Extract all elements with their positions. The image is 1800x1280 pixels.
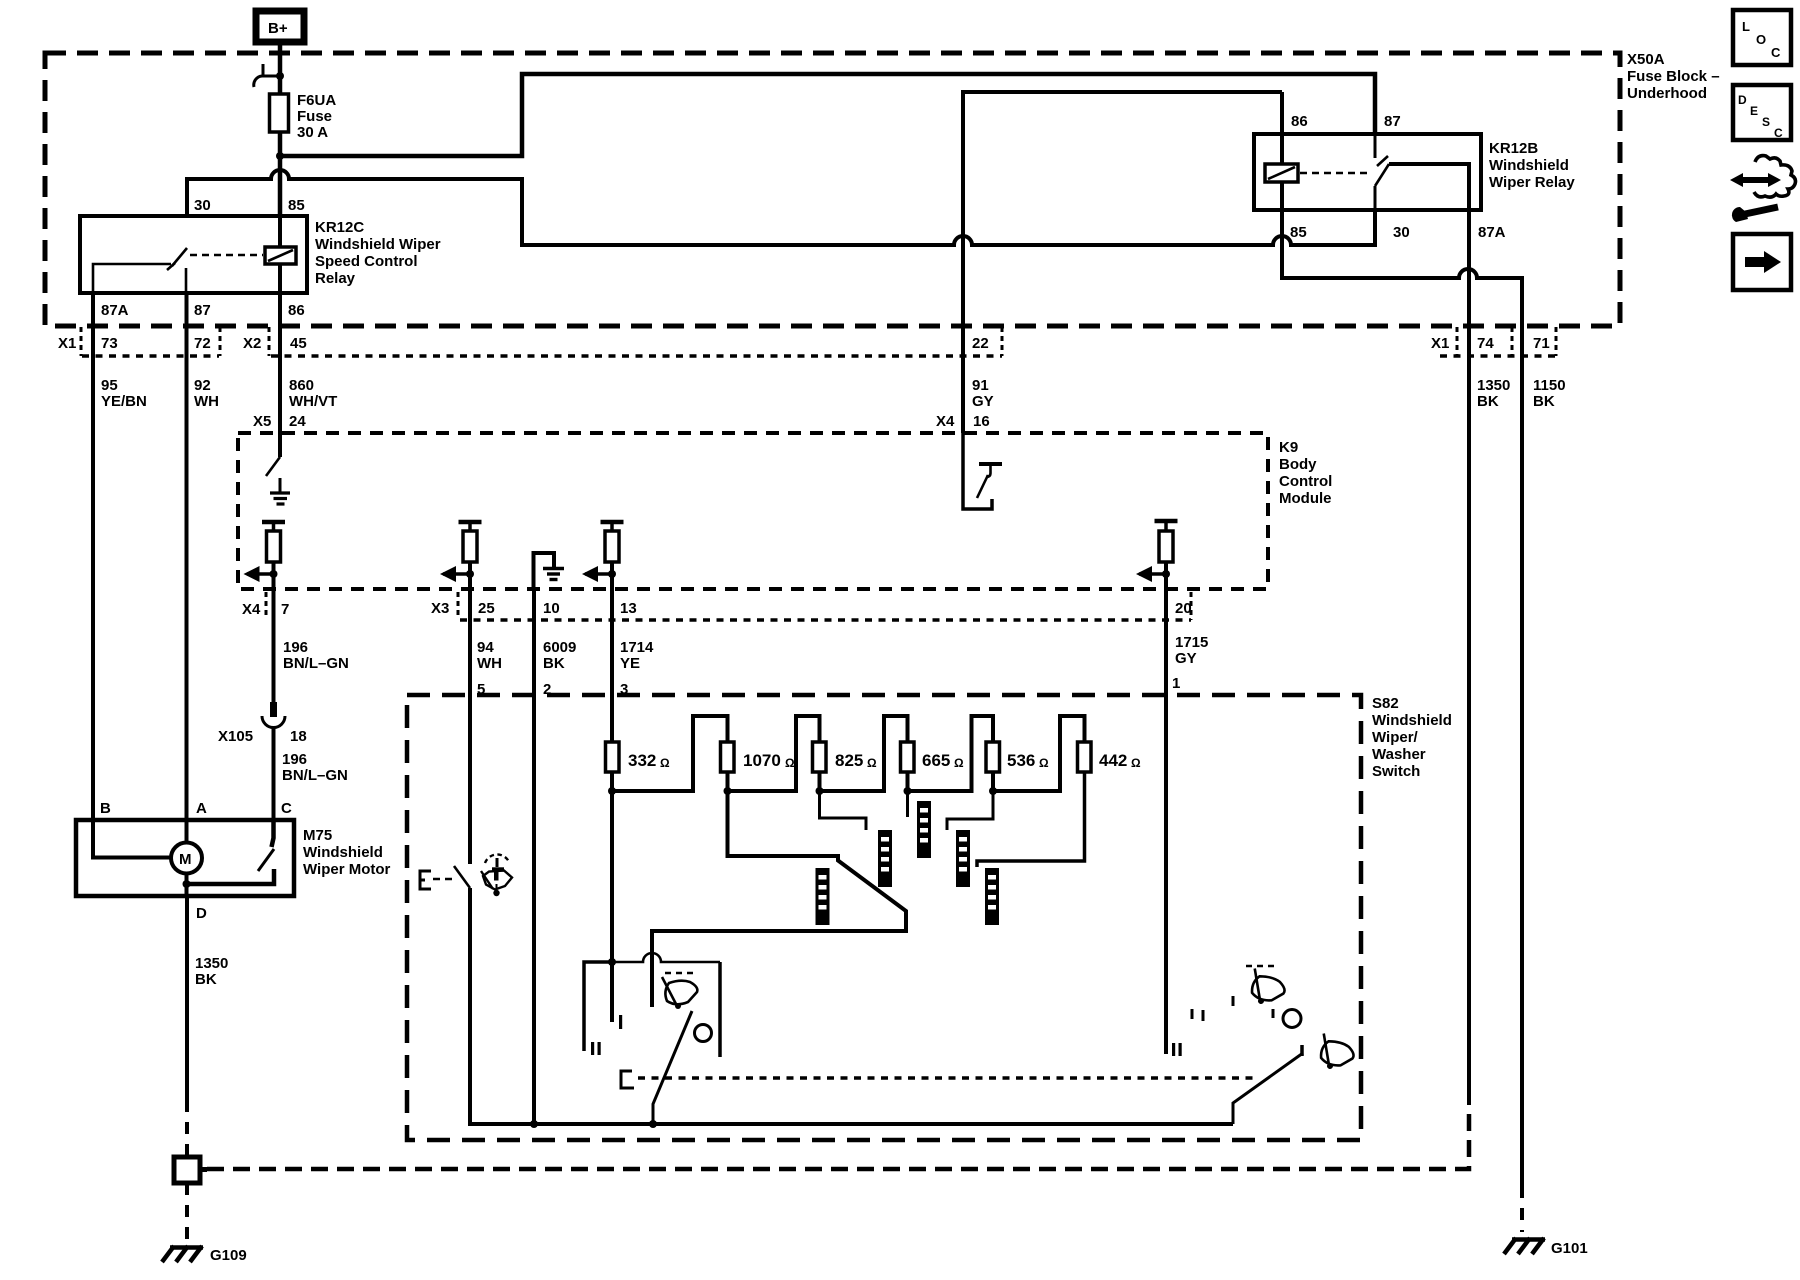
circuit label 91 GY <box>972 377 994 410</box>
svg-text:BK: BK <box>1533 393 1555 410</box>
KR12B coil-arm dashed link <box>1300 172 1368 175</box>
svg-text:M: M <box>179 851 192 868</box>
svg-text:20: 20 <box>1175 600 1192 617</box>
svg-text:86: 86 <box>288 302 305 319</box>
node motor bottom junction <box>183 874 191 897</box>
S82 Windshield Wiper/Washer Switch dashed box <box>407 695 1452 1140</box>
left rotary switch arm to bottom bus <box>653 1011 692 1124</box>
svg-text:1150: 1150 <box>1533 377 1566 394</box>
svg-text:1350: 1350 <box>195 955 228 972</box>
BCM internal ground for 6009 BK <box>534 553 565 589</box>
right rotary switch arm from bottom bus <box>1233 1053 1303 1124</box>
wire KR12B pin85 to X1-71 (1150 BK) <box>1282 182 1522 1186</box>
label contact II <box>591 1042 594 1055</box>
off-page bracket (washer switch) <box>420 871 431 889</box>
corner icon diagnostic hand/wrench <box>1730 156 1796 222</box>
wire fuse junction to top bus <box>280 74 1375 156</box>
motor park switch wire <box>187 869 275 884</box>
motor M75 Windshield Wiper Motor <box>76 820 391 896</box>
wire crossing hop over wiper feed <box>612 953 720 962</box>
BCM output driver pin X4-7 (supply bar, resistor, arrow) <box>244 522 286 589</box>
svg-text:Windshield Wiper: Windshield Wiper <box>315 236 441 253</box>
svg-text:BK: BK <box>543 655 565 672</box>
svg-text:13: 13 <box>620 600 637 617</box>
svg-text:B: B <box>100 800 111 817</box>
corner icon LOC <box>1733 10 1791 65</box>
circuit label 1714 YE <box>620 639 654 672</box>
wire bridge R536 to R442 <box>993 716 1085 791</box>
svg-text:332: 332 <box>628 751 656 770</box>
wire tap stub from R665 junction <box>906 791 909 817</box>
svg-text:24: 24 <box>289 413 306 430</box>
dashed link to washer arm <box>433 878 452 881</box>
svg-text:Ω: Ω <box>1131 756 1141 770</box>
contact strip 4 <box>956 830 970 887</box>
svg-text:BK: BK <box>195 971 217 988</box>
svg-text:X4: X4 <box>936 413 955 430</box>
corner icon DESC <box>1733 85 1791 140</box>
splice block on 1350 BK <box>174 1157 207 1183</box>
svg-text:Relay: Relay <box>315 270 356 287</box>
svg-text:45: 45 <box>290 335 307 352</box>
right rotary contact ticks <box>1192 996 1273 1021</box>
dashed wire splice to 1350 BK main run <box>207 1105 1469 1169</box>
svg-text:BK: BK <box>1477 393 1499 410</box>
svg-text:O: O <box>1756 32 1766 47</box>
circuit label 196 BN/L-GN (lower) <box>282 751 348 784</box>
BCM output driver pin X3-20 <box>1136 521 1178 589</box>
svg-text:74: 74 <box>1477 335 1494 352</box>
circuit label 1350 BK (motor) <box>195 955 228 988</box>
svg-text:Fuse Block –: Fuse Block – <box>1627 68 1720 85</box>
svg-text:30 A: 30 A <box>297 124 328 141</box>
KR12C coil-arm dashed link <box>190 254 263 257</box>
washer pump circle (right) <box>1283 1010 1301 1028</box>
connector X5 pin 24 labels <box>253 413 306 430</box>
svg-text:71: 71 <box>1533 335 1550 352</box>
right rotary arm contact tick <box>1300 1045 1304 1056</box>
svg-text:1350: 1350 <box>1477 377 1510 394</box>
KR12C coil (85-86) <box>265 247 296 264</box>
wire tap from R825 junction to contact strip <box>820 791 867 830</box>
circuit label 6009 BK <box>543 639 576 672</box>
KR12B coil (86-85) <box>1265 164 1298 182</box>
svg-text:Windshield: Windshield <box>303 844 383 861</box>
svg-text:Speed Control: Speed Control <box>315 253 418 270</box>
svg-text:91: 91 <box>972 377 989 394</box>
wire KR12B pin87A to X1-74 (1350 BK) <box>1467 210 1471 1105</box>
wire from R1070 junction zigzag to rotary wiper feed <box>652 791 906 1007</box>
fuse F6UA 30A <box>270 92 337 141</box>
circuit label 95 YE/BN <box>101 377 147 410</box>
wire KR12C 85-86 through coil <box>278 216 282 247</box>
wire motor B internal <box>93 820 171 858</box>
contact strip 2 <box>878 830 892 887</box>
svg-text:18: 18 <box>290 728 307 745</box>
svg-text:YE/BN: YE/BN <box>101 393 147 410</box>
wire R825 bottom junction <box>816 772 824 795</box>
KR12B internal 87A contact bar <box>1389 164 1469 210</box>
node 6009 BK taps bottom bus <box>530 1120 538 1128</box>
svg-text:Body: Body <box>1279 456 1317 473</box>
svg-text:72: 72 <box>194 335 211 352</box>
svg-text:WH: WH <box>194 393 219 410</box>
motor armature symbol <box>171 843 202 874</box>
wire KR12B pin86 internal to coil <box>1280 92 1284 164</box>
svg-text:G101: G101 <box>1551 1240 1588 1257</box>
svg-text:X105: X105 <box>218 728 253 745</box>
svg-text:BN/L–GN: BN/L–GN <box>283 655 349 672</box>
svg-text:536: 536 <box>1007 751 1035 770</box>
wire to contact II <box>584 962 612 1051</box>
svg-text:825: 825 <box>835 751 863 770</box>
svg-text:C: C <box>1771 45 1781 60</box>
ground G109 <box>162 1246 247 1264</box>
svg-text:K9: K9 <box>1279 439 1298 456</box>
svg-text:X1: X1 <box>58 335 76 352</box>
connector row X4/X3 under BCM <box>242 592 1192 620</box>
corner icon forward arrow <box>1733 234 1791 290</box>
svg-text:S82: S82 <box>1372 695 1399 712</box>
svg-text:Ω: Ω <box>785 756 795 770</box>
svg-text:1070: 1070 <box>743 751 781 770</box>
circuit label 196 BN/L-GN (upper) <box>283 639 349 672</box>
KR12B internal switch arm from pin 30 <box>1375 164 1389 210</box>
node rotary contact junction <box>608 958 616 966</box>
svg-text:B+: B+ <box>268 20 288 37</box>
svg-text:1714: 1714 <box>620 639 654 656</box>
circuit label 1350 BK <box>1477 377 1510 410</box>
BCM output driver pin X3-25 <box>440 522 482 589</box>
svg-text:Fuse: Fuse <box>297 108 332 125</box>
wire 94 WH to washer switch <box>468 589 472 864</box>
svg-text:Washer: Washer <box>1372 746 1426 763</box>
svg-text:C: C <box>281 800 292 817</box>
battery B+ terminal <box>256 11 304 42</box>
svg-text:X4: X4 <box>242 601 261 618</box>
svg-text:1: 1 <box>1172 675 1180 692</box>
BCM internal driver switch on 91 GY <box>963 433 1002 509</box>
resistor 536 ohm <box>986 742 1049 772</box>
svg-text:Wiper Relay: Wiper Relay <box>1489 174 1575 191</box>
svg-text:442: 442 <box>1099 751 1127 770</box>
svg-text:16: 16 <box>973 413 990 430</box>
wire motor C internal with kink <box>272 820 274 847</box>
svg-text:GY: GY <box>1175 650 1197 667</box>
svg-text:860: 860 <box>289 377 314 394</box>
svg-text:10: 10 <box>543 600 560 617</box>
svg-text:Ω: Ω <box>660 756 670 770</box>
circuit label 1715 GY <box>1175 634 1208 667</box>
X50A Fuse Block - Underhood dashed box <box>45 51 1720 326</box>
wire R332 bottom junction <box>608 772 616 795</box>
wire bridge R1070 to R825 <box>728 716 820 791</box>
connector row X1/X2 under fuse block (left) <box>58 327 1002 356</box>
wire bridge R665 to R536 <box>908 716 994 791</box>
washer pump circle (left) <box>695 1025 712 1042</box>
svg-text:KR12B: KR12B <box>1489 140 1538 157</box>
svg-text:F6UA: F6UA <box>297 92 336 109</box>
svg-text:WH/VT: WH/VT <box>289 393 337 410</box>
ground G101 <box>1504 1238 1588 1257</box>
resistor 332 ohm <box>606 742 671 772</box>
wire 1714 YE to rotary contacts I and II <box>610 791 614 1022</box>
contact strip 1 <box>816 868 830 925</box>
wire right contact of left rotary <box>718 962 722 1057</box>
wiper park icon lower (right rotary) <box>1314 1033 1358 1074</box>
svg-text:85: 85 <box>1290 224 1307 241</box>
wire 196 BN/L-GN lower segment to motor C <box>272 727 276 820</box>
dashed wire splice to ground G109 <box>185 1183 189 1244</box>
svg-text:Wiper/: Wiper/ <box>1372 729 1419 746</box>
washer spray icon <box>481 854 512 896</box>
relay KR12C Windshield Wiper Speed Control Relay <box>80 216 441 293</box>
KR12C internal 87A contact <box>93 264 171 293</box>
svg-text:X3: X3 <box>431 600 449 617</box>
wire tap from R536 junction to contact strip <box>947 791 993 830</box>
svg-text:M75: M75 <box>303 827 332 844</box>
svg-text:25: 25 <box>478 600 495 617</box>
svg-text:Ω: Ω <box>954 756 964 770</box>
svg-text:86: 86 <box>1291 113 1308 130</box>
wiper park icon upper (right rotary) <box>1245 966 1289 1010</box>
contact strip 5 <box>985 868 999 925</box>
resistor 442 ohm <box>1078 742 1142 772</box>
BCM internal switch to ground on 860 WH/VT <box>266 457 280 476</box>
KR12C internal 87 contact stub <box>185 268 188 293</box>
KR12C internal switch arm (30 to 87A) <box>167 248 187 270</box>
resistor 665 ohm <box>901 742 965 772</box>
wire 1150 BK dashed segment to ground <box>1520 1186 1524 1232</box>
svg-text:85: 85 <box>288 197 305 214</box>
wire 1715 GY into S82 <box>1164 589 1168 1054</box>
svg-text:196: 196 <box>283 639 308 656</box>
svg-text:22: 22 <box>972 335 989 352</box>
wire 95 YE/BN (KR12C 87A to motor B) <box>91 293 95 820</box>
label contact I <box>619 1015 622 1029</box>
svg-text:C: C <box>1774 126 1783 140</box>
svg-text:95: 95 <box>101 377 118 394</box>
wire R536 bottom junction <box>989 772 997 795</box>
washer switch arm on 94 WH <box>454 866 470 888</box>
svg-text:87: 87 <box>194 302 211 319</box>
svg-text:Wiper Motor: Wiper Motor <box>303 861 391 878</box>
svg-text:196: 196 <box>282 751 307 768</box>
svg-text:Switch: Switch <box>1372 763 1420 780</box>
connector X105 pin 18 <box>218 702 307 745</box>
in-line connector on B+ feed <box>254 64 284 87</box>
svg-text:D: D <box>196 905 207 922</box>
resistor 1070 ohm <box>721 742 796 772</box>
wire 1350 BK from motor D <box>185 896 189 1100</box>
wire 1714 YE into S82 <box>610 589 614 742</box>
K9 Body Control Module dashed box <box>238 433 1332 589</box>
svg-text:30: 30 <box>1393 224 1410 241</box>
wire bridge R825 to R665 <box>820 716 908 791</box>
ground symbol inside BCM (860 circuit) <box>270 478 290 504</box>
svg-text:X50A: X50A <box>1627 51 1665 68</box>
wire 196 BN/L-GN upper segment <box>272 589 276 702</box>
svg-text:A: A <box>196 800 207 817</box>
circuit label 94 WH <box>477 639 502 672</box>
wire 1350 BK dashed off-page segment <box>185 1100 189 1155</box>
wire R1070 bottom junction <box>724 772 732 795</box>
svg-text:BN/L–GN: BN/L–GN <box>282 767 348 784</box>
svg-text:Ω: Ω <box>1039 756 1049 770</box>
svg-text:665: 665 <box>922 751 950 770</box>
wire 92 WH (KR12C 87 to motor A) <box>185 293 189 843</box>
motor park switch arm <box>258 849 274 871</box>
svg-text:1715: 1715 <box>1175 634 1208 651</box>
svg-text:KR12C: KR12C <box>315 219 364 236</box>
resistor 825 ohm <box>813 742 878 772</box>
svg-text:X1: X1 <box>1431 335 1449 352</box>
svg-text:87: 87 <box>1384 113 1401 130</box>
node arm to bus <box>649 1120 657 1128</box>
relay KR12B Windshield Wiper Relay <box>1254 134 1575 210</box>
KR12B pin 87 internal stub with contact tick <box>1375 134 1388 166</box>
svg-text:Ω: Ω <box>867 756 877 770</box>
svg-text:Windshield: Windshield <box>1489 157 1569 174</box>
svg-text:WH: WH <box>477 655 502 672</box>
wire 94 WH below washer switch to bottom bus <box>470 888 1233 1124</box>
svg-text:E: E <box>1750 104 1758 118</box>
node: fuse output junction <box>276 152 284 160</box>
circuit label 860 WH/VT <box>289 377 337 410</box>
svg-text:92: 92 <box>194 377 211 394</box>
svg-text:YE: YE <box>620 655 640 672</box>
wire B+ down through fuse to KR12C pin 85 <box>278 45 283 216</box>
svg-text:L: L <box>1742 19 1750 34</box>
wire KR12C pin30 to KR12B pin30 (hops over B+, 91GY, pin85 wires) <box>187 170 1375 245</box>
svg-text:87A: 87A <box>1478 224 1506 241</box>
svg-text:S: S <box>1762 115 1770 129</box>
circuit label 92 WH <box>194 377 219 410</box>
wire R665 bottom junction <box>904 772 912 795</box>
svg-text:Control: Control <box>1279 473 1332 490</box>
connector row X1 under fuse block (right) <box>1431 327 1556 356</box>
connector X4 pin 16 labels <box>936 413 990 430</box>
svg-text:GY: GY <box>972 393 994 410</box>
wiper park icon (left rotary) <box>662 973 697 1009</box>
svg-text:Windshield: Windshield <box>1372 712 1452 729</box>
wire KR12B pin86 to BCM (91 GY) <box>963 92 1282 433</box>
svg-text:6009: 6009 <box>543 639 576 656</box>
svg-text:Module: Module <box>1279 490 1332 507</box>
label contact II (right rotary) <box>1172 1043 1175 1056</box>
dotted link line across switch <box>638 1076 1257 1080</box>
contact strip 3 <box>917 801 931 858</box>
svg-text:94: 94 <box>477 639 494 656</box>
svg-text:G109: G109 <box>210 1247 247 1264</box>
BCM output driver pin X3-13 <box>582 522 624 589</box>
svg-text:87A: 87A <box>101 302 129 319</box>
svg-text:X2: X2 <box>243 335 261 352</box>
wire from R442 bottom to contact strip <box>977 772 1085 867</box>
off-page bracket (left rotary) <box>621 1071 634 1088</box>
svg-text:30: 30 <box>194 197 211 214</box>
svg-text:Underhood: Underhood <box>1627 85 1707 102</box>
svg-text:73: 73 <box>101 335 118 352</box>
circuit label 1150 BK <box>1533 377 1566 410</box>
wire 6009 BK to switch common <box>532 589 536 1124</box>
svg-text:D: D <box>1738 93 1747 107</box>
svg-text:X5: X5 <box>253 413 271 430</box>
svg-text:7: 7 <box>281 601 289 618</box>
wire bridge R332 to R1070 <box>612 716 728 791</box>
